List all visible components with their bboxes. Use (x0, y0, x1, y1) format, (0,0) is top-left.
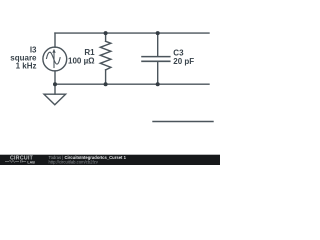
node junction dot R1 bottom (104, 82, 108, 86)
svg-text:1 kHz: 1 kHz (16, 62, 37, 71)
node junction dot C3 top (156, 31, 160, 35)
resistor R1 zigzag (100, 41, 111, 70)
wire bottom rail (55, 83, 209, 85)
wire floating segment right (153, 121, 213, 123)
watermark attribution line 1 (49, 155, 127, 164)
watermark logo squiggle (5, 160, 26, 163)
current source I3 circle (43, 47, 67, 71)
svg-text:http://circuitlab.com/cb2fzv: http://circuitlab.com/cb2fzv (49, 160, 99, 165)
node junction dot at source bottom (53, 82, 57, 86)
wire current source bottom lead (54, 71, 56, 84)
watermark CircuitLab logo text (10, 155, 35, 164)
wire top rail (55, 32, 209, 34)
svg-text:100 µΩ: 100 µΩ (68, 57, 95, 66)
ground stub (54, 84, 56, 94)
wire left drop from top rail to current source (54, 33, 56, 47)
ground triangle (44, 94, 66, 105)
current source arrowhead (52, 49, 55, 53)
capacitor C3 bottom lead (157, 62, 159, 84)
svg-text:LAB: LAB (27, 160, 35, 164)
node junction dot C3 bottom (156, 82, 160, 86)
resistor R1 bottom lead (105, 70, 107, 84)
node junction dot R1 top (104, 31, 108, 35)
svg-text:20 pF: 20 pF (173, 57, 194, 66)
current source arrow shaft (53, 51, 55, 68)
capacitor C3 top lead (157, 33, 159, 56)
current source sine wave (47, 52, 61, 64)
watermark bar (0, 155, 220, 165)
capacitor C3 bottom plate (142, 60, 170, 62)
resistor R1 top lead (105, 33, 107, 41)
capacitor C3 top plate (142, 56, 170, 58)
